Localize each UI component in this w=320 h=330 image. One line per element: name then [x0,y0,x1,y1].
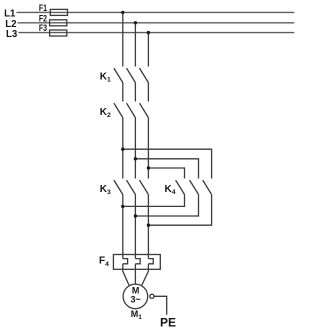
motor PE terminal nub [150,294,154,298]
wire L1 bus [17,11,295,13]
overload F4 element3 [148,259,153,264]
contactor K3 pole3 blade [140,180,149,194]
svg-text:K2: K2 [100,107,111,119]
wire phase2 K3 to F4 [134,195,136,259]
contactor K2 pole2 blade [127,103,136,118]
svg-text:L1: L1 [4,8,16,19]
contactor K2 pole3 blade [140,103,149,118]
node branch2 junction [134,157,137,160]
wire phase2 between K2 K3 [134,118,136,179]
wire phase3 between K1 K2 [147,83,149,102]
wire branch L3 to K4 pole1 [148,168,184,179]
node branch1 junction [121,148,124,151]
svg-text:M1: M1 [131,309,143,321]
svg-text:PE: PE [160,316,176,330]
fuse F2 [50,20,67,26]
contactor K2 pole1 blade [114,103,123,118]
overload F4 element2 [135,259,140,264]
overload relay F4 box [113,255,160,270]
wire F4 to motor right [142,264,149,286]
svg-text:K3: K3 [100,184,111,196]
wire phase1 between K1 K2 [122,83,124,102]
wire phase3 between K2 K3 [147,118,149,179]
svg-text:K4: K4 [165,184,176,196]
wire phase1 between K2 K3 [122,118,124,179]
node return1 junction [121,205,124,208]
contactor K4 pole3 blade [203,180,212,194]
svg-text:L3: L3 [6,29,18,40]
fuse F3 [50,30,67,36]
svg-text:F1: F1 [39,3,47,13]
wire L2 bus [18,22,295,24]
svg-text:3~: 3~ [130,294,140,304]
overload F4 element1 [123,259,128,264]
node L1-phase1 junction [121,11,124,14]
svg-text:K1: K1 [100,71,111,83]
node return2 junction [134,214,137,217]
motor M1 circle [123,284,148,309]
fuse F1 [50,9,67,15]
wire phase2 between K1 K2 [134,83,136,102]
wire K4 pole1 return to phase1 [123,195,185,207]
svg-text:F2: F2 [39,13,47,23]
contactor K1 pole3 blade [140,68,149,83]
svg-text:F3: F3 [39,23,47,33]
node return3 junction [147,224,150,227]
wire F4 to motor left [123,264,130,286]
wire PE [154,296,167,315]
wire phase1 K3 to F4 [122,195,124,259]
wire phase3 vertical top [147,33,149,67]
wire K4 pole2 return to phase2 [135,195,198,217]
contactor K1 pole1 blade [114,68,123,83]
wire branch L1 to K4 pole3 [123,149,212,178]
contactor K3 pole1 blade [114,180,123,194]
node L3-phase3 junction [147,31,150,34]
wire branch L2 to K4 pole2 [135,159,198,179]
node branch3 junction [147,166,150,169]
wire phase2 vertical top [134,23,136,67]
wire K4 pole3 return to phase3 [148,195,211,226]
wire phase1 vertical top [122,12,124,66]
wire F4 to motor middle [134,264,136,284]
contactor K4 pole1 blade [176,180,185,194]
svg-text:F4: F4 [99,256,109,268]
contactor K3 pole2 blade [127,180,136,194]
wire phase3 K3 to F4 [147,195,149,259]
contactor K1 pole2 blade [127,68,136,83]
wire L3 bus [19,32,295,34]
contactor K4 pole2 blade [190,180,199,194]
node L2-phase2 junction [134,21,137,24]
